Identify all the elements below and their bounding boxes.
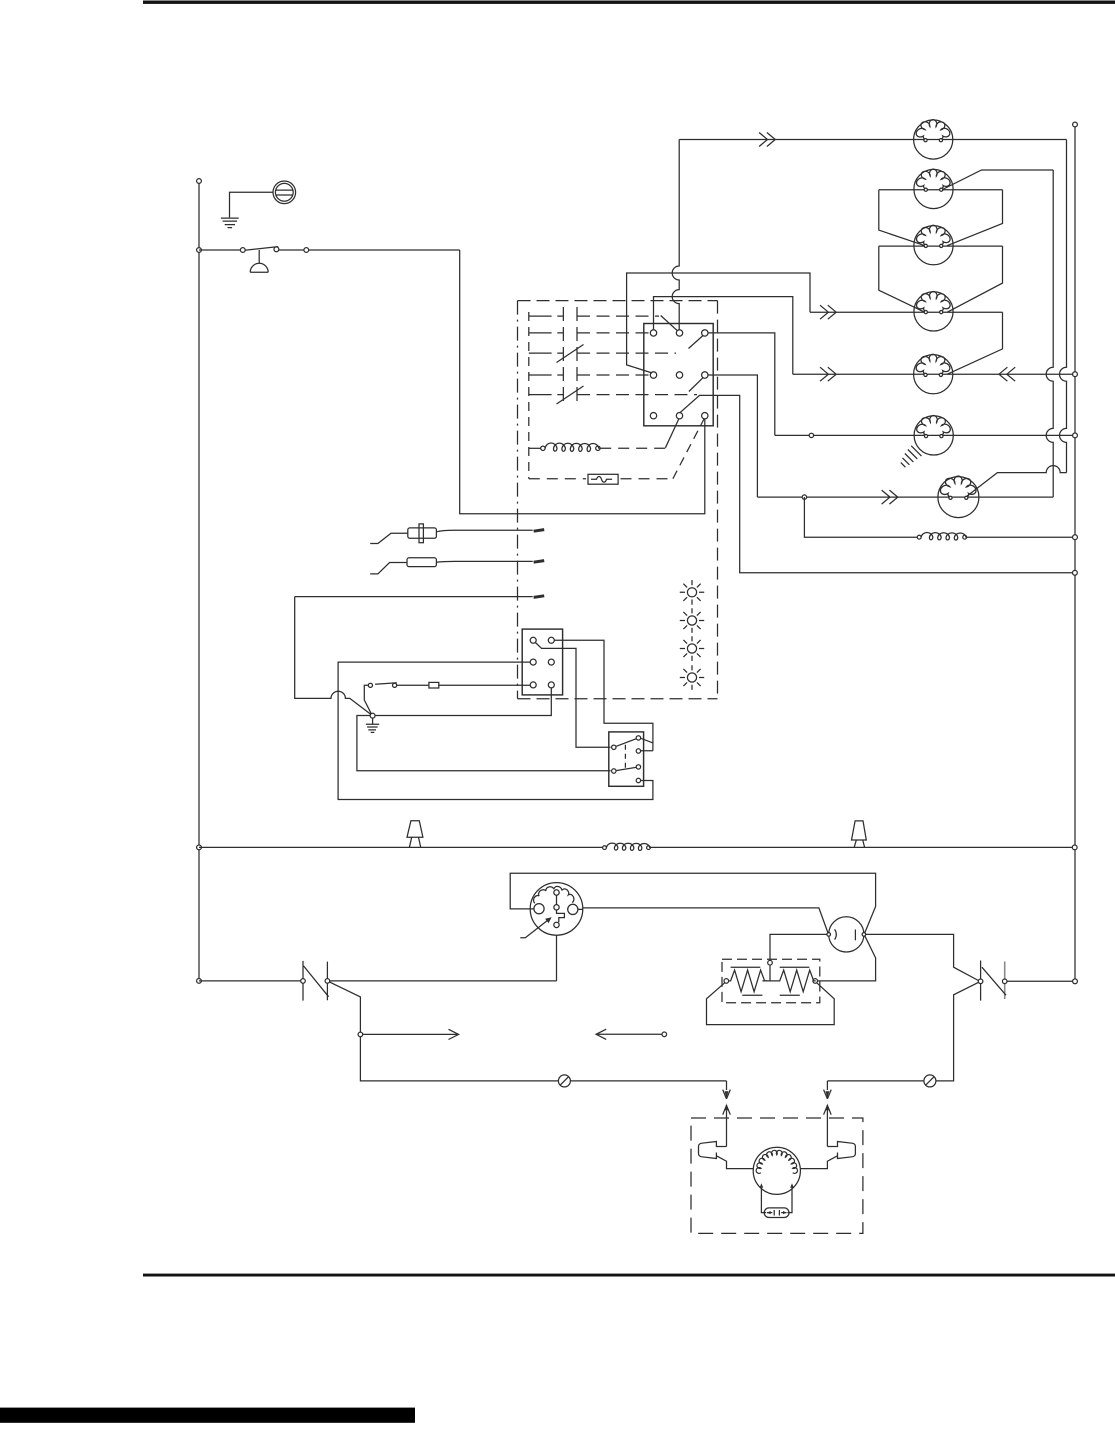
door switch contact a bbox=[240, 248, 245, 253]
RL1 terminal L1 bbox=[612, 745, 616, 749]
bottom-left black bar bbox=[0, 1408, 415, 1423]
IG2 right lead bbox=[436, 560, 532, 563]
connector arrows right pair bbox=[826, 1081, 828, 1090]
M2 brush marks bbox=[760, 1183, 764, 1187]
timer set arrow bbox=[520, 919, 549, 938]
node right rail 573 bbox=[1073, 570, 1078, 575]
resistor center tap terminal bbox=[768, 960, 773, 965]
sensor lead wire bbox=[295, 596, 533, 598]
bell bus wire bbox=[199, 249, 460, 251]
wire E2 right drop to E7 line (with hops) bbox=[1046, 170, 1053, 497]
surface element E6 bbox=[914, 415, 953, 455]
indicator lamp LP3 bbox=[680, 636, 704, 661]
door switch blade bbox=[245, 247, 278, 251]
NC slash row E bbox=[557, 386, 584, 404]
wire loop E3-E4 right bbox=[947, 246, 1003, 312]
left interlock switch SW1 bbox=[303, 961, 327, 1001]
RL1 center dashed bbox=[624, 745, 626, 770]
RL1 terminal L2 bbox=[612, 769, 616, 773]
wire SW2 branch down bbox=[827, 982, 978, 1081]
terminal at top of right rail bbox=[1073, 122, 1078, 127]
terminal 2B bbox=[676, 372, 682, 378]
ground terminal circle bbox=[370, 713, 375, 718]
wire E2 diagonal feed bbox=[942, 170, 1054, 190]
relay RL1 bbox=[609, 732, 644, 786]
wire M1 right pin to right switch bbox=[866, 934, 979, 980]
wire E3 line bbox=[879, 245, 1003, 247]
oven lamp holder left bbox=[407, 821, 423, 848]
surface element E3 bbox=[914, 225, 953, 265]
node right rail E6 bbox=[1073, 433, 1078, 438]
wire timer right lead bbox=[583, 908, 828, 933]
horn/buzzer P1 bbox=[273, 181, 296, 204]
oven igniter IG1 body bbox=[408, 528, 437, 538]
resistor bypass loop bbox=[707, 983, 835, 1025]
wire E2 line bbox=[879, 189, 1003, 191]
wire TB1 3R to ground bbox=[357, 688, 611, 771]
node arrow left bbox=[358, 1032, 363, 1037]
wire loop E2-E3 left bbox=[879, 190, 925, 246]
connector arrows left pair bbox=[726, 1081, 728, 1090]
wire loop E3-E4 left bbox=[879, 246, 925, 312]
wire E5 line bbox=[793, 373, 1075, 375]
resistor R2 zigzag bbox=[778, 970, 816, 992]
door switch contact c bbox=[304, 248, 309, 253]
contact row D (dashed) bbox=[529, 374, 564, 376]
TB1 terminal 1L bbox=[530, 637, 536, 643]
terminal 3A bbox=[650, 413, 656, 419]
top page rule bbox=[143, 1, 1115, 4]
RL1 terminal R4 bbox=[636, 778, 640, 782]
wire SW2 to right rail bbox=[1007, 980, 1075, 982]
contact bar right bbox=[576, 307, 578, 404]
ground hatch at E6 bbox=[901, 446, 922, 467]
inductor L2 bbox=[917, 535, 921, 539]
wire M1 right pin to resistor right bbox=[818, 936, 876, 981]
clock timer T1 bbox=[530, 883, 583, 936]
IG2 connector tip bbox=[534, 561, 545, 563]
ground (chassis) bbox=[366, 718, 379, 732]
wire bell bus loop to oven control terminal 3C bbox=[460, 250, 705, 514]
node on left rail at main bus bbox=[197, 845, 202, 850]
wire E1 right drop to E7 diagonal (with hops) bbox=[1060, 140, 1067, 473]
plug connector right bbox=[801, 1142, 856, 1169]
M2 capacitor bbox=[764, 1208, 789, 1218]
broil igniter IG2 body bbox=[407, 558, 436, 567]
blade from 2C bbox=[689, 378, 703, 392]
chevron connector on E5 line right bbox=[999, 367, 1015, 381]
RL1 blade 2 bbox=[616, 767, 637, 770]
splice right bbox=[924, 1075, 936, 1087]
TB1 blade wire to relay bbox=[535, 643, 610, 748]
coil wire dashed to terminal 3B bbox=[600, 447, 665, 449]
IG1 crossbar bbox=[419, 524, 423, 543]
fuse wire dashed bbox=[529, 478, 673, 480]
chevron connector on E5 line left bbox=[820, 367, 836, 381]
M2 capacitor leads bbox=[761, 1188, 792, 1213]
wire coil branch from E7 node bbox=[804, 497, 917, 537]
inline device on lock wire bbox=[429, 682, 439, 688]
contact bar left bbox=[562, 307, 564, 404]
splice left bbox=[558, 1075, 570, 1087]
bake element resistor box (dashed) bbox=[722, 959, 820, 1003]
contact row C (dashed) bbox=[529, 352, 564, 354]
wire SW1 to timer bottom bbox=[330, 980, 557, 982]
wire TB1 1R to relay top bbox=[554, 640, 653, 750]
ground (horn) bbox=[221, 218, 239, 228]
terminal 1B bbox=[676, 330, 682, 336]
connector point on E6 line bbox=[809, 433, 813, 437]
surface element E2 bbox=[914, 169, 953, 209]
wire E6 line bbox=[775, 434, 1075, 436]
door lock switch blade bbox=[364, 683, 397, 714]
contact row A (dashed) bbox=[529, 315, 564, 317]
wire M1 left pin to resistor mid bbox=[770, 934, 827, 960]
NC slash row C bbox=[557, 345, 584, 363]
wire SW1 branch down bbox=[329, 982, 726, 1081]
wire timer top loop bbox=[510, 873, 875, 933]
TB1 terminal 2L bbox=[530, 659, 536, 665]
terminal 3C bbox=[702, 413, 708, 419]
bottom page rule bbox=[143, 1274, 1115, 1277]
bell B1 bbox=[250, 250, 268, 272]
blade from 1C bbox=[689, 336, 703, 349]
control inner feed dashed riser bbox=[528, 312, 530, 479]
surface element E1 bbox=[914, 120, 953, 160]
IG1 right lead bbox=[436, 530, 532, 532]
chevron connector on E1 line bbox=[759, 133, 775, 147]
wire loop E4-E5 right bbox=[947, 312, 1003, 374]
wire terminal 1A riser to E5 bbox=[654, 297, 793, 375]
chevron connector on E4 line bbox=[820, 305, 836, 319]
terminal 2C bbox=[702, 372, 708, 378]
surface element E4 bbox=[914, 291, 953, 331]
terminal at top of left rail bbox=[197, 179, 202, 184]
blade to 1B bbox=[661, 316, 678, 331]
terminal 2A bbox=[650, 372, 656, 378]
RL1 terminal R3 bbox=[636, 765, 640, 769]
node on left rail at bell bus bbox=[197, 248, 202, 253]
IG2 left lead bbox=[370, 563, 407, 574]
door lock switch contacts bbox=[368, 683, 372, 687]
resistor center tap wire bbox=[762, 965, 777, 981]
indicator lamp LP1 bbox=[680, 580, 704, 605]
wire E1 left drop to terminal 1B (with hops) bbox=[672, 140, 679, 330]
plug connector left bbox=[699, 1142, 755, 1169]
IG1 connector tip bbox=[534, 530, 545, 532]
blower motor dashed enclosure bbox=[691, 1118, 863, 1233]
TB1 terminal 1R bbox=[548, 637, 554, 643]
wire blade 3B to right rail lower bbox=[680, 395, 1075, 572]
door switch contact b bbox=[274, 247, 279, 252]
TB1 terminal 2R bbox=[548, 659, 554, 665]
wire E7 line bbox=[757, 496, 1053, 498]
node right rail coil bbox=[1073, 535, 1078, 540]
convection motor M1 bbox=[829, 917, 864, 952]
chevron connector on E7 line bbox=[882, 490, 898, 504]
node right rail E5 bbox=[1073, 372, 1078, 377]
wire coil to right rail bbox=[967, 536, 1075, 538]
resistor terminal left bbox=[724, 979, 729, 984]
resistor R1 zigzag bbox=[729, 970, 767, 992]
RL1 blade 1 bbox=[616, 739, 637, 747]
direction arrow left-pointing bbox=[662, 1032, 667, 1037]
resistor terminal right bbox=[813, 979, 818, 984]
node right rail bottom bbox=[1073, 979, 1078, 984]
contact row E (dashed) bbox=[529, 394, 564, 396]
terminal 1A bbox=[650, 330, 656, 336]
connector point on E7 line bbox=[802, 495, 806, 499]
oven control dashed enclosure bbox=[517, 301, 519, 699]
terminal 3B bbox=[676, 413, 682, 419]
right supply rail bbox=[1074, 125, 1076, 982]
oven control switch block bbox=[644, 324, 713, 426]
wire timer bottom bbox=[556, 935, 558, 981]
RL1 terminal R1 bbox=[636, 736, 640, 740]
wire terminal 1C to E6 line bbox=[708, 333, 775, 436]
wire E1 line bbox=[679, 139, 1066, 141]
wire lock switch to TB1 3L bbox=[397, 684, 531, 686]
TB1 terminal 3R bbox=[548, 682, 554, 688]
wire TB1 2L to relay bottom loop bbox=[338, 662, 653, 799]
wire terminal 2A riser to E4 bbox=[627, 273, 810, 373]
indicator lamp LP4 bbox=[680, 665, 704, 690]
bus inductor L3 bbox=[603, 846, 607, 850]
fuse wire dashed diagonal to terminal 3C bbox=[673, 419, 704, 479]
wire horn to ground bbox=[230, 192, 274, 217]
surface element E7 bbox=[938, 476, 979, 518]
relay coil L1 bbox=[529, 447, 541, 449]
main bus wire bbox=[199, 846, 1075, 848]
wire terminal 2C to E7 line bbox=[708, 375, 757, 497]
oven lamp holder right bbox=[852, 821, 867, 847]
IG1 left lead bbox=[370, 533, 408, 543]
indicator lamp LP2 bbox=[680, 608, 704, 633]
wire E7 diagonal to E1 drop (hop over E2 drop) bbox=[966, 466, 1066, 497]
direction arrow right-pointing bbox=[363, 1033, 458, 1035]
wire sensor drop to ground link bbox=[295, 597, 372, 715]
thermal fuse F1 bbox=[588, 474, 618, 484]
node on left rail at timer line bbox=[197, 979, 202, 984]
TB1 terminal 3L bbox=[530, 682, 536, 688]
left supply rail wire bbox=[198, 181, 200, 981]
terminal 1C bbox=[702, 330, 708, 336]
contact row B (dashed) bbox=[529, 332, 564, 334]
wire loop E2-E3 right bbox=[947, 190, 1003, 246]
RL1 terminal R2 bbox=[636, 749, 640, 753]
terminal block TB1 bbox=[522, 629, 562, 695]
right interlock switch SW2 bbox=[980, 961, 982, 1001]
node main bus right bbox=[1072, 845, 1077, 850]
sensor connector tip bbox=[534, 596, 545, 598]
wire E4 line bbox=[810, 311, 1003, 313]
surface element E5 bbox=[914, 354, 953, 394]
wire left rail to left switch bbox=[199, 980, 301, 982]
blower motor M2 bbox=[753, 1147, 800, 1194]
